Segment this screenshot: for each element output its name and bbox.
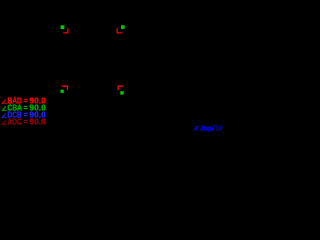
svg-text:90.0: 90.0 [29, 117, 46, 126]
svg-text:Jmap: Jmap [200, 125, 211, 132]
svg-text:ADC =: ADC = [7, 117, 27, 126]
svg-text:GSP: GSP [216, 125, 223, 132]
